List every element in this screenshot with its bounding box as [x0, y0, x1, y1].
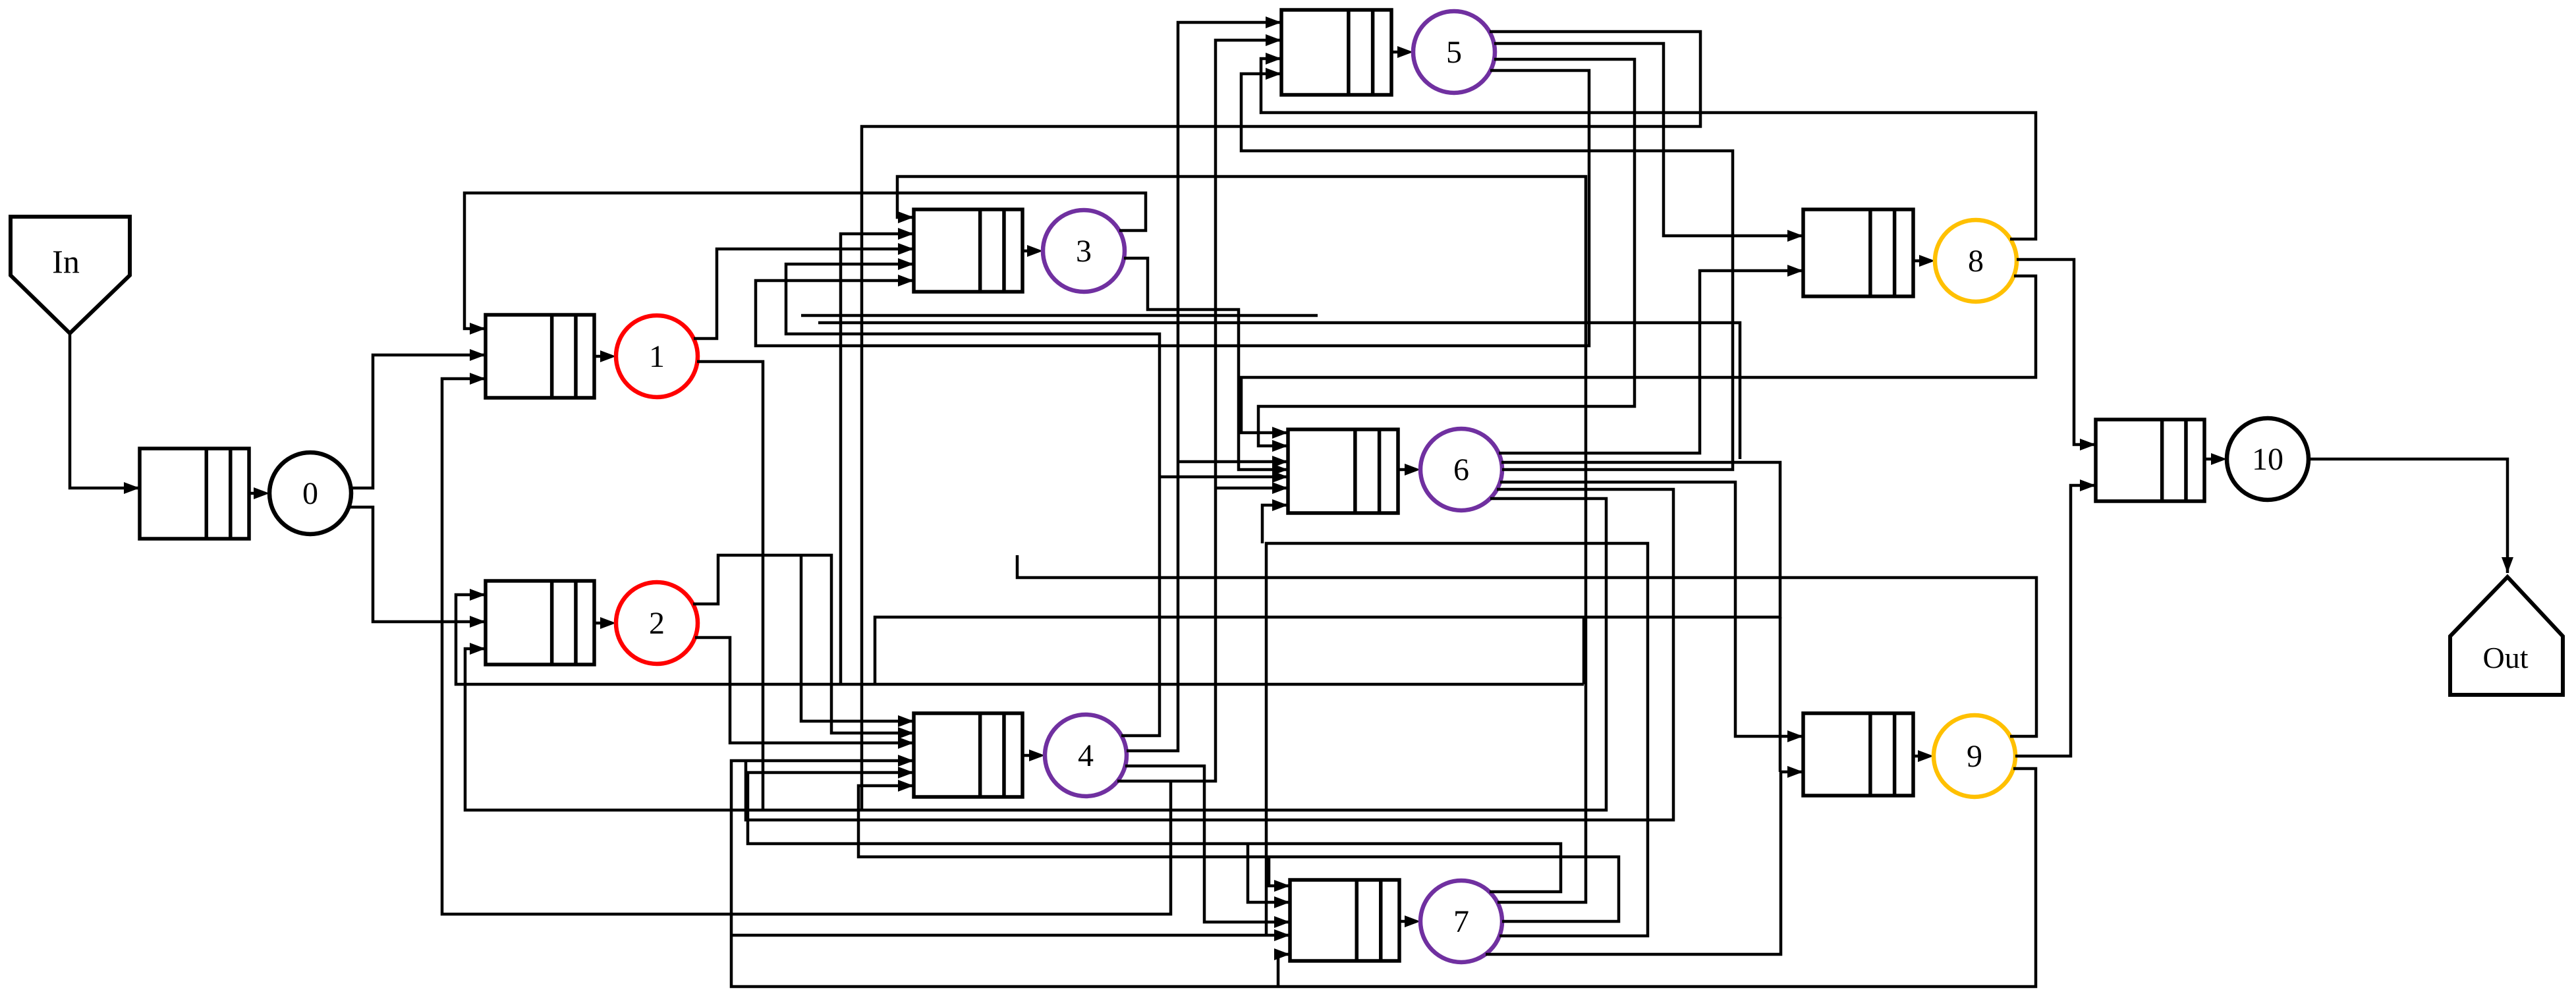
queue Q8	[1803, 209, 1913, 296]
svg-text:3: 3	[1076, 234, 1092, 269]
wire S9 feedback bus	[1017, 555, 2036, 736]
wire S6 bus to Q9 junction	[1779, 617, 1782, 772]
wire S8 to Q5 in3	[1261, 59, 2036, 239]
queue Q7	[1290, 880, 1399, 961]
svg-text:2: 2	[649, 606, 665, 641]
svg-text:Out: Out	[2483, 641, 2529, 674]
wire In to queue0	[70, 333, 140, 488]
wire S5 to Q3 in5	[756, 70, 1589, 346]
connector Q6-S6	[1398, 468, 1416, 472]
server node S10	[2227, 418, 2309, 500]
svg-text:5: 5	[1446, 35, 1462, 70]
server node S5	[1413, 11, 1495, 93]
wire S4 branch to Q1 in3	[442, 379, 1171, 914]
wire S5 long bus	[862, 32, 1700, 810]
wire S3 to Q1 in1	[464, 193, 1146, 329]
wire S1 down bus	[697, 362, 763, 810]
wire bus y490	[818, 323, 1740, 459]
wire S6 to Q9 in1	[1500, 482, 1803, 736]
svg-text:7: 7	[1453, 904, 1469, 939]
wire S7 self loop bus	[1266, 543, 1648, 936]
connector Q3-S3	[1022, 250, 1039, 253]
wire S2 to Q4 in3	[695, 638, 914, 743]
wire S8 to Q10 in1	[2017, 259, 2096, 445]
svg-text:1: 1	[649, 339, 665, 374]
connector Q9-S9	[1913, 755, 1930, 758]
connector Q2-S2	[594, 622, 612, 625]
wire S6 bus to Q2 in1	[456, 595, 1584, 684]
connector Q7-S7	[1399, 920, 1416, 923]
connector Q4-S4	[1022, 754, 1041, 757]
queue Q0	[140, 449, 249, 539]
wire S6 to Q2 in3	[465, 499, 1606, 810]
wire bus y479	[801, 314, 1318, 317]
queue Q10	[2096, 420, 2204, 501]
wire Q7 in5 branch	[1278, 954, 1290, 987]
connector Q1-S1	[594, 355, 612, 358]
queue Q1	[486, 315, 594, 398]
queue Q4	[914, 713, 1022, 797]
queue Q5	[1281, 10, 1391, 95]
wire S3 to Q6 in4	[1124, 258, 1288, 470]
server node S2	[616, 582, 698, 664]
wire S6 bus drop	[1582, 617, 1586, 684]
wire S6 bus main	[875, 462, 1780, 684]
wire S1 to Q3 in3	[694, 249, 914, 339]
server node S8	[1935, 220, 2017, 302]
wire S6 to Q5 in4	[1241, 74, 1733, 470]
wire S2 to Q4 in2	[693, 555, 914, 733]
wire S7 to Q4 in6	[858, 786, 1619, 921]
server node S9	[1934, 715, 2015, 797]
wire S9 to Q4 in4	[731, 761, 2036, 987]
queue Q2	[486, 581, 594, 665]
server node S3	[1043, 210, 1125, 292]
queue Q3	[914, 209, 1022, 292]
server node S7	[1420, 881, 1502, 962]
wire S4 to Q7 in3	[1125, 766, 1290, 922]
wire S7 to Q3 in1	[897, 177, 1586, 902]
svg-text:4: 4	[1078, 738, 1094, 773]
wire Q7 in4 long feed	[731, 934, 1290, 937]
wire S4 to Q5 in1	[1127, 22, 1281, 751]
svg-text:6: 6	[1453, 452, 1469, 487]
server node S6	[1420, 429, 1502, 510]
svg-text:0: 0	[302, 476, 318, 511]
wire S6 to Q8 in2	[1499, 271, 1803, 453]
wire S5 to Q6 in2	[1258, 59, 1635, 446]
connector Q0-S0	[249, 492, 266, 495]
wire Q7 in2 branch	[1248, 844, 1290, 902]
wire S8 to Q6 in1	[1241, 276, 2036, 433]
wire Q6 in6 branch	[1216, 487, 1288, 490]
wire Q6 in7 branch	[1262, 505, 1288, 543]
svg-text:8: 8	[1968, 244, 1984, 279]
wire Q4 in1 branch	[801, 555, 914, 721]
wire S7 to Q4 in5	[748, 773, 1561, 892]
wire Q7 in1 branch	[1269, 857, 1290, 886]
connector Q8-S8	[1913, 259, 1931, 263]
server node S1	[616, 315, 698, 397]
server node S0	[269, 452, 351, 534]
svg-text:In: In	[52, 243, 80, 280]
wire Q3 in2 from bus	[841, 234, 914, 684]
wire S0 to Q2 in2	[349, 507, 486, 622]
In source funnel	[11, 217, 130, 333]
wire S4 to Q3 in4	[786, 264, 1160, 736]
queue Q9	[1803, 713, 1913, 796]
connector Q5-S5	[1391, 51, 1409, 54]
connector Q10-S10	[2204, 458, 2223, 461]
wire S0 to Q1 in2	[350, 355, 486, 488]
wire S4 to Q5 in2	[1117, 40, 1281, 781]
wire S9 to Q10 in2	[2015, 485, 2096, 756]
wire S6 to bus y1243	[746, 489, 1673, 820]
svg-text:10: 10	[2252, 442, 2283, 477]
svg-text:9: 9	[1967, 739, 1982, 774]
wire S5 to Q8 in1	[1494, 43, 1803, 236]
server node S4	[1045, 715, 1127, 796]
queue Q6	[1288, 429, 1398, 513]
wire S7 to Q9 in2	[1486, 772, 1803, 954]
wire Q6 in3 branch	[1178, 460, 1288, 464]
wire S10 to Out	[2309, 459, 2507, 573]
wire Q6 in5 branch	[1160, 476, 1288, 479]
